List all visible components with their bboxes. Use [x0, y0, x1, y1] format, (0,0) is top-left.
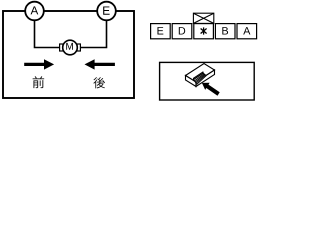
ammeter A: [25, 2, 44, 21]
letter M (motor): [66, 43, 73, 50]
label 後 (rear): [93, 77, 105, 88]
letter D: [179, 27, 185, 34]
letter E: [157, 27, 163, 34]
crossed box above asterisk cell: [193, 13, 213, 23]
arrow pointing right (front direction): [24, 59, 54, 69]
source E: [97, 2, 116, 21]
answer cell 2 (D): [172, 24, 192, 39]
answer cell 5 (A): [237, 24, 257, 39]
lower right frame: [160, 62, 255, 100]
motor brush right: [77, 44, 80, 51]
letter A: [243, 27, 250, 34]
motor M: [63, 40, 78, 55]
3D connector box: front face: [186, 76, 197, 87]
answer cell 3 (*): [194, 24, 214, 39]
arrow pointing left (rear direction): [85, 59, 115, 69]
thick arrow pointing at terminal: [202, 83, 220, 96]
car body outline: [3, 11, 134, 98]
wire from ammeter A down to motor: [35, 20, 61, 48]
label 前 (front): [33, 76, 45, 88]
letter E (source): [103, 7, 109, 15]
3D connector box: top face: [186, 64, 215, 83]
motor brush left: [60, 44, 63, 51]
answer cell 4 (B): [215, 24, 235, 39]
wire from source E down to motor: [81, 20, 107, 48]
answer cell 1 (E): [151, 24, 171, 39]
letter B: [222, 27, 228, 34]
3D connector box: right face: [196, 70, 215, 87]
letter A (ammeter): [31, 6, 39, 14]
asterisk symbol: [201, 27, 207, 34]
ribbed terminal on box: [193, 72, 206, 84]
